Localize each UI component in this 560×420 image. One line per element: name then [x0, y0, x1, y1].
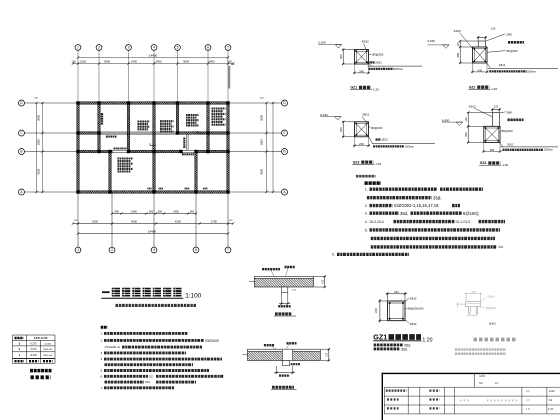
beam label block lower room	[118, 157, 134, 159]
note 1500mm detail J2	[489, 70, 526, 72]
svg-text:1500mm: 1500mm	[544, 150, 553, 152]
svg-text:12: 12	[495, 381, 499, 385]
wall grid D top	[77, 102, 230, 105]
table caption lines	[30, 369, 52, 373]
beam label block bay 6	[212, 107, 226, 109]
note 1500mm detail J3	[373, 145, 404, 147]
svg-text:-0.030: -0.030	[30, 354, 37, 357]
grid bubble 7 top	[225, 45, 231, 51]
slab 1 drop beam	[281, 287, 287, 293]
svg-text:4.: 4.	[365, 220, 368, 224]
2d8 label detail J4	[500, 112, 506, 113]
dim 240 below detail J1	[354, 65, 356, 75]
note 1500mm detail J1	[369, 68, 394, 70]
svg-text:2400: 2400	[131, 210, 137, 214]
stirrup label detail J4	[499, 131, 502, 133]
dim line bottom inner	[112, 213, 196, 215]
beam label block bay 5	[186, 114, 199, 116]
svg-text:6.: 6.	[332, 253, 335, 257]
svg-text:3000: 3000	[36, 115, 40, 121]
svg-text:1 B: 1 B	[526, 407, 530, 411]
svg-text:Φ6@200: Φ6@200	[486, 307, 497, 310]
svg-text:1500mm: 1500mm	[405, 146, 414, 148]
svg-text:2Φ8: 2Φ8	[506, 111, 512, 115]
grid line 6 stem	[207, 50, 209, 101]
svg-text:4: 4	[153, 248, 155, 252]
faint GZ2 rebar label	[481, 297, 488, 302]
grid bubble B left	[19, 149, 25, 155]
faint GZ2 dim below	[467, 315, 478, 317]
grid line 1 stem	[77, 50, 79, 101]
svg-text:4.68: 4.68	[479, 374, 485, 378]
svg-text:3.: 3.	[101, 351, 104, 355]
slab 1 right dim	[314, 275, 326, 277]
GZ1 column section	[388, 301, 405, 321]
svg-text:250: 250	[339, 54, 343, 59]
svg-text:240: 240	[477, 68, 482, 72]
column section detail J3	[355, 122, 369, 137]
svg-text:35d,: 35d,	[145, 380, 151, 384]
svg-text:2100: 2100	[80, 59, 86, 63]
svg-text:2400: 2400	[209, 59, 215, 63]
dims 120/250 detail J2	[459, 40, 478, 42]
svg-text:2: 2	[111, 248, 113, 252]
svg-text:240: 240	[490, 148, 495, 152]
svg-text:4Φ12: 4Φ12	[362, 40, 369, 44]
svg-text:4.: 4.	[101, 357, 104, 361]
svg-text:250: 250	[464, 132, 468, 137]
grid bubble 6 bottom	[193, 247, 199, 253]
grid bubble 4 bottom	[151, 247, 157, 253]
stirrup label detail J3	[369, 126, 371, 128]
svg-text:1m.: 1m.	[498, 245, 504, 249]
svg-text:120: 120	[491, 27, 496, 31]
svg-text:1500mm: 1500mm	[394, 69, 403, 71]
svg-text:6.: 6.	[101, 374, 104, 378]
svg-text:250: 250	[456, 52, 460, 57]
svg-text:14400: 14400	[149, 54, 158, 58]
svg-text:GZ: GZ	[149, 374, 153, 378]
note 1500mm detail J4	[503, 149, 544, 151]
added bars note detail J1	[369, 64, 372, 67]
svg-text:14400: 14400	[148, 229, 157, 233]
grid line A left	[25, 191, 77, 193]
dim 240 below detail J4	[483, 143, 485, 153]
grid line 5 stem	[177, 50, 179, 101]
notes right line 7	[371, 237, 495, 240]
grid line C left	[25, 132, 77, 134]
dim 120 above parapet detail J4	[492, 108, 494, 112]
svg-text:1.: 1.	[365, 188, 368, 192]
wall grid 1 left	[77, 104, 80, 190]
svg-text:Φ6@200: Φ6@200	[372, 52, 384, 56]
grid bubble C left	[19, 130, 25, 136]
svg-text:2400: 2400	[156, 59, 162, 63]
beam L1 along C double line top	[100, 131, 176, 133]
svg-text:2/3: 2/3	[526, 389, 530, 393]
slab 1 left tick	[249, 281, 255, 283]
svg-text:35d;: 35d;	[433, 196, 442, 201]
svg-text:1:20: 1:20	[422, 338, 432, 344]
svg-text:2Φ12: 2Φ12	[375, 61, 382, 65]
svg-text:900: 900	[149, 210, 154, 214]
dim line segments top	[73, 63, 233, 65]
svg-text:2700: 2700	[211, 220, 217, 224]
svg-text:240: 240	[374, 308, 378, 313]
slab section detail 1	[255, 278, 314, 287]
svg-text:250: 250	[339, 127, 343, 132]
stirrup label detail J1	[369, 53, 372, 55]
title block v-line right group	[521, 387, 523, 414]
grid bubble 3 top	[126, 45, 132, 51]
wall lower right room	[195, 153, 198, 191]
svg-text:2400: 2400	[173, 210, 179, 214]
dim 250 detail J3	[342, 121, 355, 123]
svg-text:1: 1	[77, 46, 79, 50]
svg-text:GL2,GL4: GL2,GL4	[370, 220, 384, 224]
title block inner table lines	[384, 386, 560, 388]
slab 2 left tick	[243, 354, 248, 356]
GZ1 dim 240 top	[387, 292, 389, 301]
svg-text:03ZG003: 03ZG003	[205, 339, 219, 343]
svg-text:GZ4: GZ4	[480, 161, 487, 165]
svg-text:2Φ14: 2Φ14	[488, 296, 495, 299]
svg-text:2Φ8: 2Φ8	[506, 32, 512, 36]
faint grey heading above title block	[474, 338, 517, 342]
opening in wall B left	[113, 150, 129, 153]
column section detail J4	[484, 126, 500, 142]
GZ1 dim 240 left	[379, 300, 388, 302]
svg-text:3000.000: 3000.000	[43, 349, 53, 351]
beam label vertical GL5	[183, 138, 185, 149]
svg-text:6: 6	[207, 46, 209, 50]
wall grid B	[77, 150, 230, 153]
svg-text:3000: 3000	[260, 115, 264, 121]
svg-text:1:20: 1:20	[491, 87, 497, 91]
main title first char yi	[102, 291, 110, 293]
slab 2 opening	[282, 349, 292, 361]
grid bubble 2 bottom	[109, 247, 115, 253]
svg-text:3300: 3300	[92, 220, 98, 224]
beam label L1(3) vertical	[101, 113, 103, 125]
wall grid C right segment	[176, 132, 229, 135]
svg-text:GZ2: GZ2	[469, 85, 476, 89]
grid bubble 5 top	[175, 45, 181, 51]
slab 2 labels above	[264, 344, 275, 346]
right dim line outer	[272, 103, 274, 192]
grid line A right	[229, 191, 281, 193]
grid line D left	[25, 102, 77, 104]
svg-text:5.150: 5.150	[427, 39, 435, 43]
svg-text:120: 120	[494, 104, 499, 108]
svg-text:6@100);: 6@100);	[463, 211, 479, 216]
notes right line 8	[371, 245, 497, 248]
faint GZ2 stirrup label	[481, 307, 485, 309]
svg-text:4: 4	[153, 46, 155, 50]
svg-text:1800: 1800	[36, 139, 40, 145]
slab 2 drop label	[291, 363, 300, 365]
svg-text:Φ6@250/200: Φ6@250/200	[407, 307, 424, 311]
svg-text:4200: 4200	[260, 168, 264, 174]
svg-text:120: 120	[227, 59, 232, 63]
svg-text:2: 2	[98, 46, 100, 50]
grid bubble C right	[282, 130, 288, 136]
title block faint middle marks	[487, 399, 519, 401]
svg-text:0-2400: 0-2400	[44, 343, 52, 345]
svg-text:3.: 3.	[365, 212, 368, 216]
svg-text:5: 5	[177, 46, 179, 50]
svg-text:GZ1: GZ1	[373, 332, 387, 341]
svg-text:4Φ12: 4Φ12	[362, 112, 369, 116]
right dim line inner	[266, 103, 268, 192]
dim 250 detail J1	[342, 49, 355, 51]
wall grid 7 right	[227, 104, 230, 190]
svg-text:2400: 2400	[131, 59, 137, 63]
wall grid C left segment	[77, 132, 101, 135]
grid line 2 stem	[98, 50, 100, 101]
svg-text:Φ6@200: Φ6@200	[371, 126, 383, 130]
svg-text:1:100: 1:100	[185, 293, 201, 300]
grid bubble 2 top	[96, 45, 102, 51]
slab 1 dim below	[280, 293, 282, 305]
svg-text:4200: 4200	[36, 168, 40, 174]
svg-text:3000: 3000	[183, 59, 189, 63]
dim line bottom middle	[73, 223, 233, 225]
beam label L1(1)	[106, 136, 117, 138]
grid line C right	[229, 132, 281, 134]
slab 1 labels above	[262, 268, 280, 270]
subtitle parentheses line	[116, 304, 197, 307]
grid line B left	[25, 151, 77, 153]
wall grid 5 upper	[176, 104, 179, 131]
grid line 7 stem	[227, 50, 229, 101]
GZ1 rebar bottom label	[405, 320, 409, 324]
svg-text:3.270: 3.270	[30, 348, 37, 351]
svg-text:1.07: 1.07	[548, 407, 554, 411]
svg-text:(711G201-1): (711G201-1)	[105, 345, 121, 349]
grid bubble 6 top	[205, 45, 211, 51]
title block heavy border	[382, 372, 560, 374]
svg-text:GZ3: GZ3	[353, 160, 360, 164]
beam GL vertical double line	[185, 134, 187, 150]
svg-text:4 6: 4 6	[526, 398, 530, 402]
grid bubble 7 bottom	[225, 247, 231, 253]
wall grid 4	[153, 104, 156, 190]
slab 2 drop	[282, 361, 289, 366]
slab 2 right dim	[321, 348, 330, 350]
svg-text:900: 900	[115, 210, 120, 214]
svg-text:900: 900	[190, 210, 195, 214]
dims 120/250 detail J4	[467, 112, 493, 114]
svg-text:5.: 5.	[365, 228, 368, 232]
svg-text:120: 120	[465, 117, 468, 122]
added bars note detail J4	[500, 143, 503, 147]
svg-text:7.: 7.	[101, 386, 104, 390]
grid bubble 1 bottom	[75, 247, 81, 253]
dim 240 below detail J3	[354, 137, 356, 147]
svg-text:2.: 2.	[101, 338, 104, 342]
svg-text:1800: 1800	[260, 139, 264, 145]
main title blocks	[112, 288, 183, 297]
grid bubble 1 top	[75, 45, 81, 51]
slab section detail 2	[248, 351, 321, 360]
svg-text:7: 7	[227, 46, 229, 50]
svg-text:Φ6@200: Φ6@200	[506, 49, 518, 53]
svg-text:8.160: 8.160	[320, 113, 328, 117]
svg-text:03ZG002-1,15,16,17,18: 03ZG002-1,15,16,17,18	[394, 203, 439, 208]
column section detail J1	[355, 50, 369, 65]
slab 2 caption	[272, 386, 294, 389]
small note under details	[356, 175, 376, 178]
svg-text:4200: 4200	[131, 220, 137, 224]
stirrup label detail J2	[487, 51, 506, 53]
wall lower left room	[109, 153, 112, 191]
svg-text:120: 120	[71, 59, 76, 63]
svg-text:2Φ12: 2Φ12	[507, 142, 514, 146]
GZ1 caption notes	[374, 343, 403, 346]
faint GZ2 small text	[489, 323, 495, 325]
parapet detail J4	[492, 113, 494, 127]
svg-text:1:20: 1:20	[373, 87, 379, 91]
grid bubble A right	[282, 189, 288, 195]
columns GZ black squares	[76, 101, 79, 104]
svg-text:240: 240	[471, 291, 476, 294]
beam label block bay 3	[138, 120, 150, 122]
svg-text:GZ1: GZ1	[351, 86, 358, 90]
svg-text:2.: 2.	[365, 204, 368, 208]
faint GZ2 section shape	[466, 302, 481, 314]
dim line overall top	[78, 57, 228, 59]
notes header left	[101, 326, 108, 329]
grid line B right	[229, 151, 281, 153]
dim line bottom overall	[78, 233, 228, 235]
beam label above opening B left	[114, 147, 127, 149]
svg-text:6: 6	[195, 248, 197, 252]
svg-text:2-02: 2-02	[549, 389, 555, 393]
svg-text:2Φ12: 2Φ12	[499, 63, 506, 67]
svg-text:2Φ12: 2Φ12	[410, 297, 417, 301]
grid line 3 stem	[128, 50, 130, 101]
wall grid 3 upper	[127, 104, 130, 150]
flue stub above right wall	[228, 66, 230, 89]
svg-text:5.: 5.	[101, 369, 104, 373]
added bars note detail J3	[369, 136, 373, 143]
svg-text:3000: 3000	[104, 59, 110, 63]
notes header right	[365, 181, 382, 185]
faint note rows	[455, 348, 506, 351]
GZ1 rebar top label	[405, 298, 409, 301]
notes right line 2	[367, 196, 432, 199]
svg-text:4Φ12: 4Φ12	[469, 105, 476, 109]
wall grid 6 upper	[207, 104, 210, 150]
opening in wall B right	[181, 150, 196, 153]
wall grid A bottom	[77, 191, 230, 194]
faint GZ2 left tick	[457, 303, 466, 305]
2d8 label detail J2	[486, 34, 506, 41]
dim 120 above parapet detail J2	[477, 36, 479, 40]
column section detail J2	[473, 47, 488, 63]
grid bubble D right	[282, 100, 288, 106]
elevation table	[13, 334, 56, 336]
beam label LL1(1)	[182, 153, 194, 155]
grid line D right	[229, 102, 281, 104]
svg-text:3.160: 3.160	[318, 40, 326, 44]
faint GZ2 dim 240 top	[465, 293, 467, 301]
grid bubble D left	[19, 100, 25, 106]
svg-text:2Φ12: 2Φ12	[410, 322, 417, 326]
svg-text:1: 1	[77, 248, 79, 252]
title block left cell texts	[386, 390, 407, 392]
dim 240 below detail J2	[472, 64, 474, 74]
svg-text:6.270: 6.270	[30, 342, 37, 345]
svg-text:7: 7	[227, 248, 229, 252]
bottom grid stems	[77, 193, 79, 247]
svg-text:4Φ12: 4Φ12	[454, 29, 461, 33]
tiny labels above wall A	[148, 188, 152, 190]
svg-text:1.: 1.	[101, 331, 104, 335]
svg-text:3300.000: 3300.000	[43, 355, 53, 357]
title block v-line upper	[473, 373, 475, 387]
beam label block bay 4	[160, 120, 174, 122]
svg-text:14: 14	[549, 398, 553, 402]
svg-text:35d.: 35d.	[401, 347, 408, 351]
svg-text:240: 240	[394, 290, 399, 294]
left dim line outer	[36, 103, 38, 192]
svg-text:1:20: 1:20	[375, 162, 381, 166]
slab 2 dim below	[276, 366, 278, 374]
svg-text:Φ6@200: Φ6@200	[501, 129, 513, 133]
svg-text:1:20: 1:20	[502, 163, 508, 167]
grid bubble B right	[282, 149, 288, 155]
svg-text:3: 3	[128, 46, 130, 50]
svg-text:6.850: 6.850	[442, 118, 450, 122]
note detail J2	[508, 41, 524, 44]
grid bubble 4 top	[151, 45, 157, 51]
svg-text:6.270~9.470: 6.270~9.470	[34, 337, 48, 340]
added bars note detail J2	[487, 63, 491, 68]
svg-text:240: 240	[359, 69, 364, 73]
svg-text:1500mm: 1500mm	[527, 71, 536, 73]
svg-text:240: 240	[359, 142, 364, 146]
grid bubble A left	[19, 189, 25, 195]
slab 1 caption	[275, 312, 292, 315]
svg-text:4200: 4200	[175, 220, 181, 224]
small slope marks	[150, 145, 156, 147]
svg-text:N0.: N0.	[479, 381, 484, 385]
left dim line inner	[42, 103, 44, 192]
svg-text:900: 900	[158, 210, 163, 214]
parapet detail J2	[477, 41, 479, 47]
elevation table texts	[15, 337, 24, 340]
svg-text:2Φ12: 2Φ12	[381, 138, 388, 142]
svg-text:GL1,GL3: GL1,GL3	[456, 220, 470, 224]
GZ1 stirrup label	[405, 307, 407, 309]
grid line 4 stem	[153, 50, 155, 101]
svg-text:35d,: 35d,	[400, 211, 408, 216]
note detail J4	[508, 119, 524, 122]
title underline	[101, 297, 183, 299]
svg-text:120: 120	[457, 42, 460, 47]
wall grid 2 upper	[98, 104, 101, 150]
